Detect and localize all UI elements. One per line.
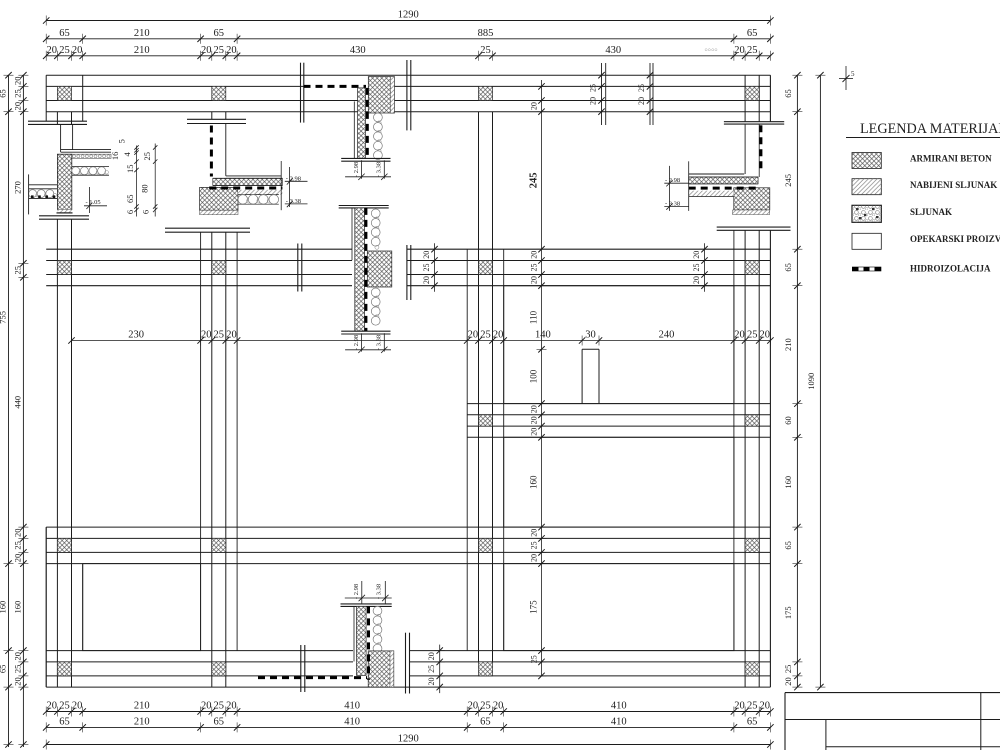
svg-text:65: 65 — [0, 89, 8, 98]
svg-text:25: 25 — [59, 701, 70, 712]
svg-text:100: 100 — [529, 369, 539, 383]
svg-text:1090: 1090 — [806, 373, 816, 390]
svg-text:65: 65 — [747, 28, 758, 39]
svg-text:20: 20 — [530, 554, 539, 562]
svg-text:210: 210 — [783, 338, 793, 351]
svg-text:110: 110 — [529, 310, 539, 324]
svg-text:20: 20 — [13, 102, 23, 111]
svg-text:65: 65 — [214, 717, 225, 728]
svg-text:- 2.98: - 2.98 — [353, 584, 360, 599]
svg-text:755: 755 — [0, 311, 8, 324]
svg-text:25: 25 — [589, 84, 598, 92]
svg-text:HIDROIZOLACIJA: HIDROIZOLACIJA — [910, 264, 991, 274]
svg-text:210: 210 — [134, 45, 150, 56]
svg-text:410: 410 — [344, 717, 360, 728]
svg-text:20: 20 — [427, 652, 436, 660]
svg-text:25: 25 — [13, 266, 23, 275]
svg-text:410: 410 — [611, 701, 627, 712]
svg-text:- 3.38: - 3.38 — [376, 335, 383, 350]
svg-text:210: 210 — [134, 701, 150, 712]
svg-text:- 2.98: - 2.98 — [353, 335, 360, 350]
svg-text:- 3.38: - 3.38 — [376, 162, 383, 177]
svg-text:160: 160 — [13, 601, 23, 614]
svg-text:20: 20 — [422, 276, 431, 284]
svg-text:5: 5 — [851, 70, 855, 78]
svg-text:65: 65 — [747, 717, 758, 728]
svg-text:6: 6 — [141, 210, 151, 214]
svg-text:210: 210 — [134, 717, 150, 728]
svg-text:20: 20 — [13, 652, 23, 661]
svg-text:16: 16 — [110, 152, 120, 161]
svg-text:20: 20 — [226, 330, 237, 341]
svg-text:OPEKARSKI PROIZVODI: OPEKARSKI PROIZVODI — [910, 234, 1000, 244]
svg-text:20: 20 — [427, 678, 436, 686]
svg-text:240: 240 — [659, 330, 675, 341]
svg-text:- 3.38: - 3.38 — [665, 201, 680, 208]
svg-text:410: 410 — [344, 701, 360, 712]
svg-text:20: 20 — [13, 77, 23, 86]
svg-text:6: 6 — [125, 210, 135, 214]
svg-text:20: 20 — [422, 251, 431, 259]
svg-text:410: 410 — [611, 717, 627, 728]
svg-text:○○○○: ○○○○ — [704, 48, 717, 54]
svg-text:LEGENDA MATERIJALA: LEGENDA MATERIJALA — [860, 121, 1000, 137]
svg-text:30: 30 — [585, 330, 596, 341]
svg-text:20: 20 — [589, 97, 598, 105]
svg-text:1290: 1290 — [398, 734, 419, 745]
svg-text:- 1.05: - 1.05 — [86, 199, 101, 206]
svg-text:20: 20 — [530, 416, 539, 424]
svg-text:20: 20 — [530, 102, 539, 110]
svg-text:25: 25 — [637, 84, 646, 92]
svg-text:20: 20 — [468, 701, 479, 712]
svg-text:- 3.38: - 3.38 — [286, 198, 301, 205]
svg-text:25: 25 — [59, 45, 70, 56]
svg-text:20: 20 — [226, 45, 237, 56]
svg-text:20: 20 — [530, 428, 539, 436]
svg-text:ARMIRANI BETON: ARMIRANI BETON — [910, 154, 992, 164]
svg-text:245: 245 — [529, 173, 540, 189]
svg-text:65: 65 — [214, 28, 225, 39]
svg-text:140: 140 — [535, 330, 551, 341]
svg-text:25: 25 — [747, 45, 758, 56]
svg-text:20: 20 — [692, 251, 701, 259]
svg-text:245: 245 — [783, 174, 793, 187]
svg-text:25: 25 — [747, 330, 758, 341]
svg-text:210: 210 — [134, 28, 150, 39]
svg-text:20: 20 — [493, 701, 504, 712]
svg-text:160: 160 — [529, 475, 539, 489]
svg-text:25: 25 — [783, 665, 793, 674]
svg-text:440: 440 — [13, 396, 23, 409]
svg-text:20: 20 — [760, 701, 771, 712]
svg-text:25: 25 — [214, 330, 225, 341]
svg-text:80: 80 — [139, 184, 149, 193]
svg-text:20: 20 — [468, 330, 479, 341]
svg-text:20: 20 — [47, 701, 58, 712]
svg-text:20: 20 — [530, 276, 539, 284]
svg-text:65: 65 — [783, 263, 793, 272]
svg-text:20: 20 — [637, 97, 646, 105]
svg-text:20: 20 — [201, 330, 212, 341]
svg-text:25: 25 — [530, 655, 539, 663]
svg-text:25: 25 — [480, 701, 491, 712]
svg-text:230: 230 — [128, 330, 144, 341]
svg-text:25: 25 — [747, 701, 758, 712]
svg-text:20: 20 — [734, 330, 745, 341]
svg-text:20: 20 — [530, 251, 539, 259]
svg-text:20: 20 — [13, 554, 23, 563]
svg-text:20: 20 — [493, 330, 504, 341]
svg-text:25: 25 — [530, 541, 539, 549]
svg-text:20: 20 — [226, 701, 237, 712]
svg-text:25: 25 — [427, 665, 436, 673]
svg-text:430: 430 — [605, 45, 621, 56]
svg-text:25: 25 — [13, 665, 23, 674]
svg-text:- 2.98: - 2.98 — [665, 177, 680, 184]
svg-text:15: 15 — [125, 165, 135, 174]
svg-text:20: 20 — [734, 45, 745, 56]
svg-text:20: 20 — [530, 529, 539, 537]
svg-text:20: 20 — [692, 276, 701, 284]
svg-text:885: 885 — [478, 28, 494, 39]
svg-text:4: 4 — [122, 152, 132, 157]
svg-text:- 3.38: - 3.38 — [376, 584, 383, 599]
svg-text:175: 175 — [529, 600, 539, 614]
svg-text:160: 160 — [783, 476, 793, 489]
svg-text:65: 65 — [480, 717, 491, 728]
svg-text:25: 25 — [530, 264, 539, 272]
svg-text:160: 160 — [0, 601, 8, 614]
svg-text:- 2.98: - 2.98 — [353, 162, 360, 177]
svg-text:175: 175 — [783, 606, 793, 619]
svg-text:65: 65 — [783, 89, 793, 98]
svg-text:20: 20 — [47, 45, 58, 56]
svg-text:- 2.98: - 2.98 — [286, 175, 301, 182]
svg-text:25: 25 — [142, 152, 152, 161]
svg-text:1290: 1290 — [398, 10, 419, 21]
svg-text:65: 65 — [783, 541, 793, 550]
svg-text:65: 65 — [125, 195, 135, 204]
svg-text:NABIJENI SLJUNAK: NABIJENI SLJUNAK — [910, 180, 997, 190]
svg-text:25: 25 — [692, 264, 701, 272]
svg-text:20: 20 — [72, 45, 83, 56]
svg-text:20: 20 — [72, 701, 83, 712]
svg-text:20: 20 — [13, 529, 23, 538]
svg-text:5: 5 — [117, 139, 127, 143]
svg-text:20: 20 — [201, 45, 212, 56]
svg-text:20: 20 — [13, 677, 23, 686]
svg-text:20: 20 — [530, 405, 539, 413]
svg-text:20: 20 — [201, 701, 212, 712]
svg-text:25: 25 — [422, 264, 431, 272]
svg-text:270: 270 — [13, 181, 23, 194]
svg-text:25: 25 — [480, 330, 491, 341]
svg-text:20: 20 — [734, 701, 745, 712]
svg-text:65: 65 — [59, 717, 70, 728]
svg-text:60: 60 — [783, 416, 793, 425]
svg-text:20: 20 — [783, 677, 793, 686]
svg-text:SLJUNAK: SLJUNAK — [910, 207, 952, 217]
svg-text:65: 65 — [0, 665, 8, 674]
svg-text:65: 65 — [59, 28, 70, 39]
svg-text:25: 25 — [214, 45, 225, 56]
svg-text:25: 25 — [13, 89, 23, 98]
svg-text:430: 430 — [350, 45, 366, 56]
svg-text:25: 25 — [214, 701, 225, 712]
svg-text:25: 25 — [480, 45, 491, 56]
svg-text:25: 25 — [13, 541, 23, 550]
svg-text:20: 20 — [760, 330, 771, 341]
